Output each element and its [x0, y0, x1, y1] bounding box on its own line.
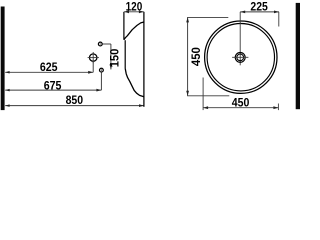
svg-text:850: 850 [66, 93, 84, 107]
extension line right (450 bottom) [277, 104, 279, 111]
extension line right of 225 [278, 12, 280, 27]
svg-text:450: 450 [189, 47, 203, 66]
drain crosshair (side view) [88, 52, 99, 63]
svg-text:450: 450 [232, 96, 250, 110]
bottom extension line (450 vertical) [187, 95, 229, 97]
svg-text:625: 625 [40, 60, 58, 74]
basin back edge (side view) [123, 12, 125, 40]
faucet hole circle (side view) [98, 42, 102, 46]
drain (top view) double circle [235, 52, 245, 62]
dimension 450 vertical line [186, 17, 189, 95]
overflow hole circle (side view) [100, 68, 104, 72]
svg-text:675: 675 [44, 79, 62, 93]
dimension 150 (vertical) [110, 44, 113, 69]
extension line left (450 bottom) [202, 78, 204, 111]
svg-text:225: 225 [250, 0, 268, 14]
svg-text:150: 150 [107, 48, 121, 67]
dimension 450 bottom line [203, 106, 278, 109]
leader overflow to 675 [100, 72, 102, 90]
dimension 625 line [5, 71, 93, 74]
center line (top view) [239, 12, 241, 65]
drain crosshair (top view) [232, 56, 248, 58]
outer circle (top view) [205, 21, 277, 93]
basin rim curve (side view) [124, 22, 144, 40]
dimension 675 line [5, 89, 101, 92]
leader from faucet hole [103, 43, 111, 45]
top extension line (450 vertical) [187, 16, 228, 18]
basin body back edge (side view) [124, 40, 126, 68]
dimension 225 line [240, 11, 279, 14]
wall (right, top view) [296, 3, 300, 109]
dimension 120 line [124, 10, 144, 13]
inner circle (top view) [207, 24, 274, 91]
dimension 850 line [5, 104, 144, 107]
basin bottom curve (side view) [125, 68, 144, 96]
svg-text:120: 120 [126, 0, 143, 13]
leader drain to 625 [92, 61, 94, 72]
wall (left, side view) [1, 7, 5, 111]
basin front edge (side view) [143, 12, 145, 107]
drain circle (side view) [90, 54, 97, 61]
